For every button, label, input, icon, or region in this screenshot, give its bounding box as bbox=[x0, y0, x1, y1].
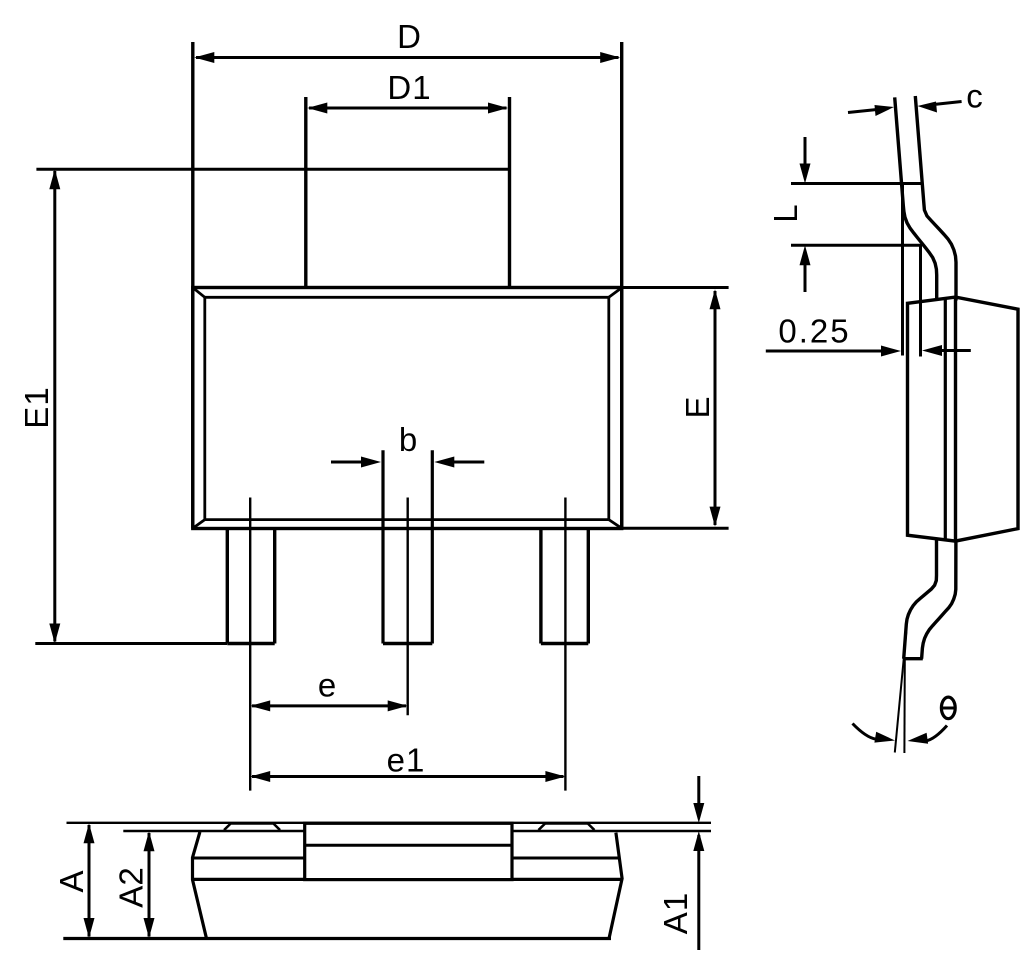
label L (rotated) bbox=[767, 204, 804, 222]
lead 1 center line bbox=[249, 498, 251, 791]
front body parting line upper left bbox=[193, 857, 305, 860]
lead upper left edge with bend bbox=[895, 97, 937, 300]
dimension L arrow up bbox=[800, 245, 811, 292]
front body lower line bbox=[193, 878, 623, 881]
label A2 (rotated) bbox=[113, 867, 150, 907]
dimension L bottom line bbox=[791, 244, 921, 247]
label c bbox=[966, 78, 983, 115]
label D1 bbox=[387, 69, 431, 106]
body inner rectangle bbox=[205, 297, 609, 519]
label D bbox=[397, 18, 421, 55]
dimension L top line bbox=[791, 182, 923, 185]
theta reference line (vertical) bbox=[903, 659, 905, 753]
dimension c arrow left (pointing right at lead) bbox=[848, 105, 894, 116]
dimension E1 line with arrows bbox=[49, 169, 60, 643]
dimension E bottom extension line bbox=[622, 527, 729, 530]
front body bottom edge with A extension bbox=[63, 937, 611, 940]
dimension D extension line right / body right edge bbox=[620, 42, 623, 529]
label A1 (rotated) bbox=[657, 892, 694, 934]
E1 bottom extension line / lead tips line bbox=[35, 642, 227, 645]
svg-text:E: E bbox=[679, 396, 716, 418]
left lead foot bump bbox=[224, 824, 280, 831]
label e1 bbox=[387, 742, 426, 779]
dimension D1 extension line right / tab right edge bbox=[508, 97, 511, 288]
dimension A1 arrow up bbox=[693, 831, 704, 950]
dimension A2 arrows bbox=[144, 831, 155, 938]
0.25 extension line right bbox=[919, 244, 922, 357]
dimension A arrows bbox=[84, 823, 95, 938]
dimension D1 line with arrows bbox=[307, 103, 508, 114]
lead upper right edge with bend bbox=[915, 96, 956, 301]
dimension L arrow down bbox=[800, 137, 811, 184]
lead hidden edge inside body bbox=[944, 298, 947, 539]
dimension c arrow right (pointing left at lead) bbox=[918, 102, 962, 113]
dimension 0.25 left-pointing arrow with tail bbox=[922, 345, 971, 356]
body corner chamfer bottom-right bbox=[609, 520, 621, 528]
side body outline bbox=[908, 297, 1019, 541]
lead 1 (left) outline bbox=[227, 529, 274, 644]
svg-text:b: b bbox=[399, 421, 417, 458]
dimension D1 extension line left / tab left edge bbox=[304, 97, 307, 288]
svg-text:c: c bbox=[966, 78, 983, 115]
right lead foot bump bbox=[539, 824, 595, 831]
dimension e1 line with arrows bbox=[250, 771, 565, 782]
svg-text:D: D bbox=[397, 18, 421, 55]
dimension 0.25 line with right arrow bbox=[766, 346, 901, 357]
theta reference line (lead plane, slanted) bbox=[895, 632, 907, 753]
front body parting line upper right bbox=[512, 857, 619, 860]
svg-text:A: A bbox=[53, 870, 90, 892]
body corner chamfer top-right bbox=[609, 288, 621, 297]
dimension A1 arrow down bbox=[693, 776, 704, 823]
label theta bbox=[941, 697, 955, 719]
svg-text:E1: E1 bbox=[18, 386, 55, 428]
theta curved arrow left bbox=[853, 724, 896, 743]
body corner chamfer bottom-left bbox=[194, 520, 205, 528]
lead foot bottom edge bbox=[904, 657, 923, 660]
svg-text:A1: A1 bbox=[657, 892, 694, 934]
body corner chamfer top-left bbox=[194, 288, 205, 297]
body outer rectangle bbox=[193, 288, 622, 529]
lead lower right edge with bend bbox=[922, 541, 956, 659]
svg-text:e1: e1 bbox=[387, 742, 426, 779]
0.25 extension line left bbox=[901, 184, 904, 356]
dimension D line with arrows bbox=[194, 52, 620, 63]
dimension b arrow left bbox=[331, 457, 381, 468]
lead 3 center line bbox=[564, 498, 566, 791]
dimension e line with arrows bbox=[250, 700, 408, 711]
svg-text:L: L bbox=[767, 204, 804, 222]
label e bbox=[318, 667, 336, 704]
label A (rotated) bbox=[53, 870, 90, 892]
svg-text:D1: D1 bbox=[387, 69, 431, 106]
tab top edge / E1 top extension line bbox=[36, 168, 509, 171]
front body outline bbox=[193, 832, 623, 940]
lead lower left edge with bend bbox=[904, 540, 937, 659]
dimension E top extension line bbox=[622, 286, 729, 289]
lead underside line right segment bbox=[512, 830, 711, 832]
dimension b arrow right bbox=[434, 457, 484, 468]
dimension D extension line left / body left edge bbox=[191, 42, 194, 529]
label E (rotated) bbox=[679, 396, 716, 418]
svg-text:e: e bbox=[318, 667, 336, 704]
seating plane line (top thin) bbox=[67, 822, 712, 824]
dimension E line with arrows bbox=[710, 289, 721, 526]
center tab front rectangle bbox=[305, 823, 512, 879]
lead 2 center line bbox=[407, 498, 409, 716]
label b bbox=[399, 421, 417, 458]
lead 2 (center) outline / b extension lines bbox=[383, 450, 432, 643]
label 0.25 bbox=[778, 313, 850, 350]
svg-text:A2: A2 bbox=[113, 867, 150, 907]
lead 3 (right) outline bbox=[541, 529, 588, 644]
theta curved arrow right bbox=[908, 726, 948, 744]
label E1 (rotated) bbox=[18, 386, 55, 428]
svg-text:0.25: 0.25 bbox=[778, 313, 850, 350]
lead underside line left segment bbox=[123, 830, 304, 832]
